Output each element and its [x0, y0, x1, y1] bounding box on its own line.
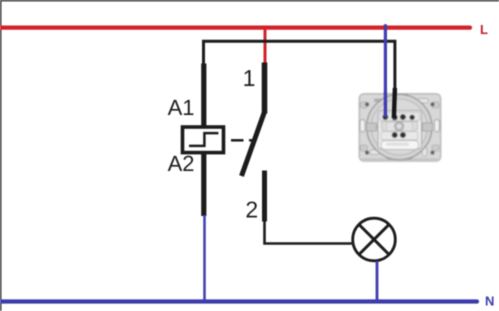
wire black into terminal (over photo): [394, 88, 395, 118]
terminal lead A1 (thick): [201, 64, 206, 127]
svg-text:A1: A1: [168, 95, 195, 120]
svg-text:2: 2: [245, 197, 258, 223]
wire black top rail (coil to push-button): [204, 41, 395, 95]
terminal lead contact 1 (thick): [262, 63, 268, 114]
wire from contact 2 to lamp: [265, 221, 352, 244]
page edge top: [0, 0, 499, 1]
svg-text:A2: A2: [168, 151, 195, 176]
terminal lead contact 2 (thick): [262, 171, 267, 222]
wire blue from A2 to N: [203, 215, 206, 301]
relay coil K1 (impulse relay box with step symbol): [183, 127, 224, 153]
svg-text:L: L: [480, 22, 488, 37]
svg-text:1: 1: [243, 65, 256, 91]
page edge left: [0, 0, 2, 311]
wire blue from lamp to N: [376, 261, 379, 301]
terminal lead A2 (thick): [201, 154, 206, 217]
mechanical link (dashed): [231, 139, 256, 142]
wire blue into terminal (over photo): [384, 92, 387, 117]
push-button insert (photo): [359, 94, 440, 162]
svg-text:N: N: [485, 294, 494, 309]
switch blade (relay contact): [242, 112, 265, 177]
N line (neutral bus, blue): [0, 299, 477, 303]
wire red drop from L to contact 1: [264, 26, 267, 64]
wire blue from L to push-button: [384, 24, 387, 117]
lamp E1 (circle with X): [353, 218, 396, 261]
L line (phase bus, red): [0, 26, 470, 30]
